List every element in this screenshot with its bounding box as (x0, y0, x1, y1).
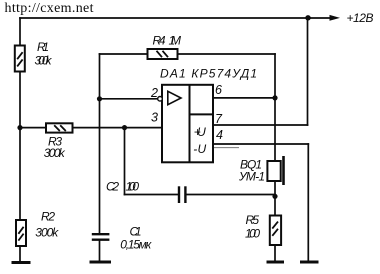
svg-text:R2: R2 (41, 209, 55, 223)
svg-text:-U: -U (193, 142, 206, 156)
svg-text:DA1 КР574УД1: DA1 КР574УД1 (160, 66, 257, 80)
svg-text:C1: C1 (130, 225, 142, 239)
svg-text:300k: 300k (35, 54, 53, 68)
svg-text:100: 100 (126, 180, 140, 194)
svg-text:300k: 300k (35, 225, 59, 239)
svg-text:2: 2 (150, 86, 158, 100)
svg-text:6: 6 (215, 83, 222, 97)
svg-text:100: 100 (245, 227, 260, 241)
svg-text:1М: 1М (169, 34, 182, 48)
svg-text:+12В: +12В (347, 11, 374, 25)
svg-text:R1: R1 (37, 40, 49, 54)
svg-text:http://cxem.net: http://cxem.net (5, 1, 94, 16)
svg-text:0,15мк: 0,15мк (120, 238, 152, 252)
svg-text:7: 7 (215, 112, 223, 126)
svg-text:R5: R5 (246, 213, 260, 227)
svg-text:3: 3 (151, 111, 158, 125)
svg-text:R4: R4 (153, 34, 166, 48)
svg-text:+U: +U (194, 125, 206, 139)
svg-text:4: 4 (216, 128, 223, 142)
svg-text:300k: 300k (44, 146, 66, 160)
svg-text:УМ-1: УМ-1 (238, 170, 265, 184)
svg-text:C2: C2 (106, 180, 119, 194)
